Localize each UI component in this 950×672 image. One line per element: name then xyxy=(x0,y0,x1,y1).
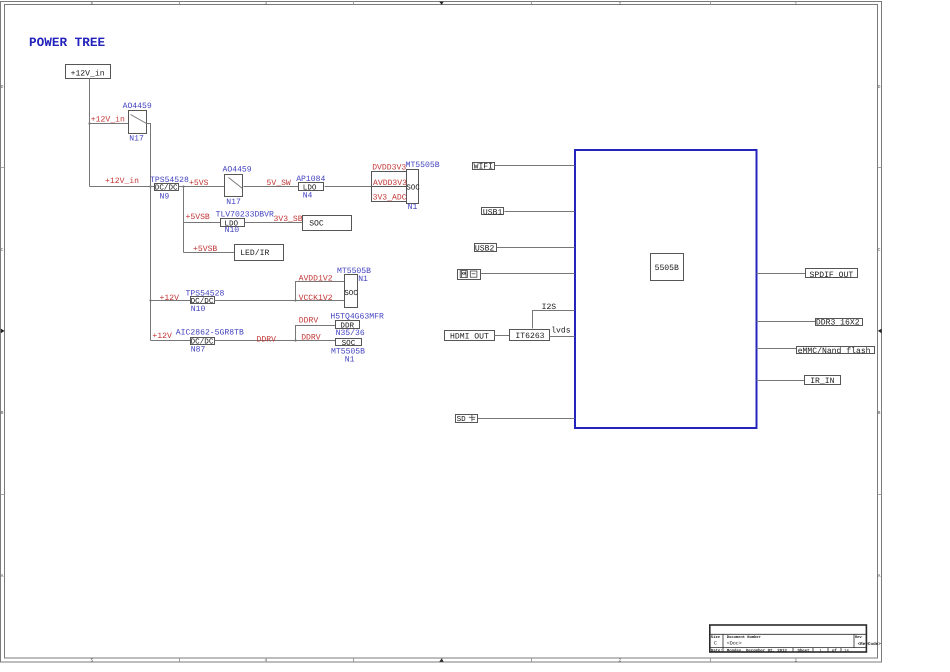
svg-text:of: of xyxy=(832,648,837,653)
svg-text:SOC: SOC xyxy=(406,183,420,192)
svg-text:+12V_in: +12V_in xyxy=(71,70,105,79)
net label VCCK1V2 xyxy=(299,294,333,303)
svg-text:eMMC/Nand flash: eMMC/Nand flash xyxy=(798,347,871,356)
svg-text:Document Number: Document Number xyxy=(727,635,761,640)
net label DDRV (mid) xyxy=(257,336,277,345)
net label 5V_SW xyxy=(267,179,291,188)
svg-text:5505B: 5505B xyxy=(655,264,679,273)
wire USB1 to SoC xyxy=(505,211,575,213)
svg-text:DDR3 16X2: DDR3 16X2 xyxy=(816,319,860,328)
svg-text:5: 5 xyxy=(91,2,94,7)
sheet title POWER TREE xyxy=(29,35,106,50)
port SPDIF_OUT xyxy=(806,269,858,280)
svg-text:DDRV: DDRV xyxy=(299,316,319,325)
block SOC (DDRV load) MT5505B N1 xyxy=(331,339,365,365)
regulator TPS54528 DC/DC N10 xyxy=(186,289,225,314)
svg-text:Sheet: Sheet xyxy=(798,648,811,653)
svg-text:AO4459: AO4459 xyxy=(223,165,252,174)
svg-text:C: C xyxy=(1,247,4,253)
svg-text:Date:: Date: xyxy=(711,648,723,653)
svg-text:DVDD3V3: DVDD3V3 xyxy=(372,164,406,173)
wire SoC to IR_IN xyxy=(757,380,805,382)
net label +5VSB xyxy=(193,245,217,254)
net label +12V xyxy=(152,332,172,341)
wire +12V_in to DC/DC N9 xyxy=(90,185,155,187)
power input port +12V_in xyxy=(66,65,111,79)
svg-text:VCCK1V2: VCCK1V2 xyxy=(299,294,333,303)
svg-text:B: B xyxy=(1,411,4,416)
net label +5VSB xyxy=(186,213,210,222)
wire ethernet port to SoC xyxy=(481,273,575,275)
svg-text:AO4459: AO4459 xyxy=(123,102,152,111)
svg-text:SOC: SOC xyxy=(309,220,324,229)
wire +5VS to Q2 xyxy=(179,186,225,188)
svg-text:2: 2 xyxy=(619,1,622,7)
svg-text:Size: Size xyxy=(711,635,721,640)
net label 3V3_SB xyxy=(274,215,303,224)
svg-text:I2S: I2S xyxy=(542,303,557,312)
wire +12V to DC/DC N10 xyxy=(149,299,190,301)
svg-text:5: 5 xyxy=(91,659,94,664)
svg-text:TPS54528: TPS54528 xyxy=(186,289,225,298)
net label +12V_in xyxy=(105,177,139,186)
svg-text:+5VSB: +5VSB xyxy=(193,245,217,254)
svg-text:1: 1 xyxy=(795,659,798,664)
wire Q1 output to +12V bus (long vertical) xyxy=(147,124,151,341)
svg-text:+5VS: +5VS xyxy=(189,179,209,188)
svg-text:+12V_in: +12V_in xyxy=(91,116,125,125)
wire HDMI OUT to IT6263 xyxy=(495,335,510,337)
port 网口 (ethernet) xyxy=(458,270,481,280)
svg-text:AP1084: AP1084 xyxy=(296,175,325,184)
svg-text:N35/36: N35/36 xyxy=(336,329,365,338)
svg-text:4: 4 xyxy=(265,2,268,7)
wire WIFI to SoC xyxy=(495,165,575,167)
svg-text:LED/IR: LED/IR xyxy=(240,249,269,258)
svg-text:C: C xyxy=(714,641,717,647)
svg-text:N87: N87 xyxy=(191,346,206,355)
wire +5VSB to LED/IR xyxy=(184,252,235,254)
net label DDRV (to DDR) xyxy=(299,316,319,325)
svg-text:N1: N1 xyxy=(345,356,355,365)
svg-text:USB1: USB1 xyxy=(483,208,503,217)
svg-text:<RevCode>: <RevCode> xyxy=(858,641,882,647)
net label AVDD1V2 xyxy=(299,275,333,284)
port WIFI xyxy=(473,163,495,172)
wire +12V_in vertical from input port xyxy=(89,79,91,187)
wire SoC to eMMC/Nand flash xyxy=(757,348,797,350)
svg-text:MT5505B: MT5505B xyxy=(406,161,440,170)
svg-text:+12V_in: +12V_in xyxy=(105,177,139,186)
regulator TLV70233DBVR LDO N10 xyxy=(216,211,274,236)
regulator AIC2862-5GR8TB DC/DC N87 xyxy=(176,329,244,355)
block SOC (3V3_SB load) xyxy=(303,216,352,231)
wire +5VSB to LDO N10 xyxy=(184,222,221,224)
svg-text:B: B xyxy=(878,411,881,416)
bridge IT6263 xyxy=(510,330,550,342)
net label +5VS xyxy=(189,179,209,188)
wire I2S from IT6263 to SoC xyxy=(533,311,575,329)
svg-text:USB2: USB2 xyxy=(475,244,495,253)
memory block DDR H5TQ4G63MFR N35/36 xyxy=(330,312,384,338)
wire 3V3_SB to SOC xyxy=(245,222,303,224)
svg-text:DDRV: DDRV xyxy=(301,333,321,342)
svg-text:3V3_SB: 3V3_SB xyxy=(274,215,303,224)
port IR_IN xyxy=(805,376,841,387)
port HDMI OUT xyxy=(445,331,495,342)
svg-text:N1: N1 xyxy=(358,275,368,284)
wire +12V to DC/DC N87 xyxy=(151,340,191,342)
svg-text:SOC: SOC xyxy=(344,289,358,298)
svg-text:Monday, December 02, 2013: Monday, December 02, 2013 xyxy=(727,648,788,653)
svg-text:POWER TREE: POWER TREE xyxy=(29,35,106,50)
svg-text:TLV70233DBVR: TLV70233DBVR xyxy=(216,211,274,220)
svg-text:H5TQ4G63MFR: H5TQ4G63MFR xyxy=(330,312,384,321)
svg-text:D: D xyxy=(1,85,4,90)
port eMMC/Nand flash xyxy=(797,347,875,356)
svg-text:N1: N1 xyxy=(408,203,418,212)
svg-text:3V3_ADC: 3V3_ADC xyxy=(373,193,407,202)
svg-text:4: 4 xyxy=(265,659,268,664)
svg-text:Rev: Rev xyxy=(855,635,863,640)
net label lvds xyxy=(551,327,571,336)
wire 5V_SW to LDO AP1084 xyxy=(244,186,299,188)
regulator AP1084 LDO N4 xyxy=(296,175,325,201)
wire USB2 to SoC xyxy=(496,247,575,249)
wire +5VSB branch down from +5VS xyxy=(182,185,184,252)
svg-text:HDMI OUT: HDMI OUT xyxy=(450,332,489,341)
svg-text:N10: N10 xyxy=(191,305,206,314)
regulator TPS54528 DC/DC N9 xyxy=(150,176,189,202)
svg-text:WIFI: WIFI xyxy=(474,163,494,172)
transistor Q2 AO4459 N17 xyxy=(223,165,252,207)
svg-text:D: D xyxy=(878,85,881,90)
net label I2S xyxy=(542,303,557,312)
svg-text:N17: N17 xyxy=(129,135,144,144)
svg-text:TPS54528: TPS54528 xyxy=(150,176,189,185)
svg-text:1: 1 xyxy=(795,2,798,7)
svg-text:AVDD1V2: AVDD1V2 xyxy=(299,275,333,284)
svg-text:N10: N10 xyxy=(225,226,240,235)
svg-text:lvds: lvds xyxy=(551,327,571,336)
SOC pin block MT5505B N1 (core rails) xyxy=(337,267,371,308)
wire VCCK1V2 to SOC pin xyxy=(215,300,345,302)
net label DDRV (to SOC) xyxy=(301,333,321,342)
wire lvds to SoC xyxy=(550,336,575,338)
wire SoC to DDR3 16X2 xyxy=(757,321,816,323)
svg-text:C: C xyxy=(878,247,881,253)
svg-text:AIC2862-5GR8TB: AIC2862-5GR8TB xyxy=(176,329,244,338)
wire SD card to SoC xyxy=(477,418,575,420)
svg-text:N4: N4 xyxy=(303,192,313,201)
wire 3V3 rails into SOC pin block xyxy=(325,186,372,188)
svg-text:N17: N17 xyxy=(226,198,241,207)
svg-text:+5VSB: +5VSB xyxy=(186,213,210,222)
wire SoC to SPDIF_OUT xyxy=(757,273,806,275)
svg-text:14: 14 xyxy=(844,648,849,653)
svg-text:DDRV: DDRV xyxy=(257,336,277,345)
svg-text:A: A xyxy=(878,574,881,579)
svg-text:IT6263: IT6263 xyxy=(515,332,544,341)
svg-text:+12V: +12V xyxy=(152,332,172,341)
svg-text:+12V: +12V xyxy=(160,294,180,303)
transistor Q1 AO4459 N17 xyxy=(123,102,152,144)
svg-text:<Doc>: <Doc> xyxy=(727,640,742,646)
port USB2 xyxy=(475,244,497,254)
port SD卡 (SD card) xyxy=(456,415,478,424)
wire DDRV branch to DDR xyxy=(294,326,335,342)
svg-text:IR_IN: IR_IN xyxy=(810,377,834,386)
port DDR3 16X2 xyxy=(816,319,863,328)
svg-text:5V_SW: 5V_SW xyxy=(267,179,291,188)
net label +12V xyxy=(160,294,180,303)
svg-text:2: 2 xyxy=(619,658,622,664)
wire DDRV to SOC xyxy=(215,340,336,342)
net label +12V_in xyxy=(91,116,125,125)
main SoC block 5505B xyxy=(575,150,757,428)
svg-text:A: A xyxy=(1,574,4,579)
block LED/IR xyxy=(235,245,284,261)
svg-text:SD: SD xyxy=(457,415,467,424)
wire AVDD1V2 branch xyxy=(294,282,344,302)
svg-text:SPDIF_OUT: SPDIF_OUT xyxy=(810,271,854,280)
svg-text:N9: N9 xyxy=(160,193,170,202)
SOC pin block MT5505B N1 (DVDD3V3/AVDD3V3/3V3_ADC) xyxy=(372,161,440,212)
wire branch to Q1 AO4459 xyxy=(88,122,128,124)
port USB1 xyxy=(482,208,504,218)
svg-text:AVDD3V3: AVDD3V3 xyxy=(373,179,407,188)
